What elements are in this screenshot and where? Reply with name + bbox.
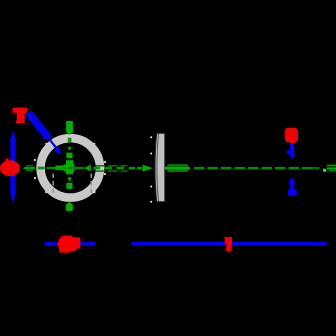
thin ray dashes above axis (ring to lens)	[96, 165, 128, 167]
dimension phi: vertical blue double arrow at far left	[10, 130, 16, 202]
construction dots left of lens (white)	[150, 136, 152, 203]
triple ray lines right of lens	[165, 164, 190, 172]
label f (red) over dimension	[225, 237, 232, 252]
corner mask top-left	[0, 0, 118, 118]
dimension f (blue double arrow, bottom right)	[131, 242, 326, 247]
axis arrowhead pointing left (inside ring, right of center)	[84, 165, 91, 172]
focal point marker (bright green dot)	[323, 169, 326, 172]
label phi (red) over left arrow	[0, 158, 20, 176]
leader line from T to ring (blue, thick then thin with arrowhead)	[28, 113, 48, 139]
axis dashes left of ring (triple ray pattern)	[23, 165, 45, 171]
thin ray dashes below axis (ring to lens)	[96, 170, 128, 172]
vertical centerline top arrow (green, points down at ring top)	[66, 121, 73, 135]
corner mask bottom-right	[222, 222, 336, 336]
ring tick marks (white, 45deg steps on outer rim)	[34, 143, 106, 193]
horizontal centerline thin run through ring	[47, 167, 85, 169]
lens inner contour line	[157, 134, 159, 202]
label T (red)	[13, 108, 28, 124]
vertical centerline bottom arrow (green, points up at ring bottom)	[66, 202, 73, 211]
lens element (side view, plano-convex)	[155, 133, 165, 202]
vertical centerline dashes	[68, 138, 72, 150]
optical axis long dashes (lens to focal region)	[194, 167, 320, 170]
converging/diverging ray stubs at right edge	[327, 165, 336, 172]
axis arrowhead pointing right (at lens)	[142, 165, 153, 172]
lens mount ring (front view)	[41, 138, 100, 197]
hidden edge dashed line left (inside ring)	[52, 174, 54, 197]
center mark cluster (green cross at ring center)	[64, 153, 75, 189]
dimension line B (blue double arrow, bottom left)	[44, 241, 96, 247]
hidden edge dashed line right (inside ring)	[90, 174, 92, 197]
label d (red) at right	[285, 128, 298, 143]
dimension d upper arrow (blue, points down)	[287, 144, 297, 159]
horizontal centerline thick dash left of center	[55, 165, 64, 170]
dimension d lower arrow (blue, points up)	[288, 178, 297, 196]
label OB (red) over dimension	[58, 236, 81, 253]
axis dashes between ring and lens	[93, 167, 135, 170]
